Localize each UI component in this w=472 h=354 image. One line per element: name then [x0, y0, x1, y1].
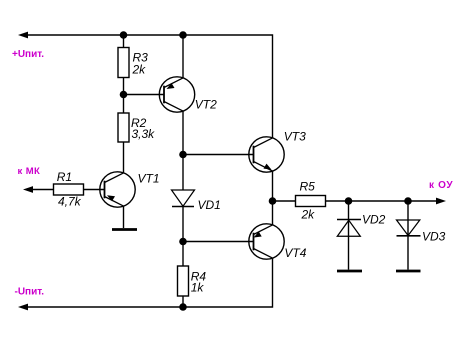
svg-text:1k: 1k — [191, 281, 205, 295]
svg-text:3,3k: 3,3k — [132, 127, 156, 141]
svg-text:к ОУ: к ОУ — [429, 180, 453, 191]
svg-text:VT4: VT4 — [284, 246, 306, 260]
svg-text:VD1: VD1 — [198, 198, 221, 212]
svg-text:-Uпит.: -Uпит. — [15, 287, 45, 298]
svg-text:VD3: VD3 — [422, 229, 446, 243]
svg-text:R1: R1 — [57, 170, 72, 184]
svg-text:VT3: VT3 — [284, 130, 306, 144]
svg-text:к МК: к МК — [18, 166, 41, 177]
svg-text:4,7k: 4,7k — [58, 195, 82, 209]
svg-text:2k: 2k — [301, 207, 316, 221]
svg-text:VT2: VT2 — [195, 98, 217, 112]
svg-text:VT1: VT1 — [138, 171, 160, 185]
svg-text:R5: R5 — [300, 180, 316, 194]
svg-text:+Uпит.: +Uпит. — [12, 49, 44, 60]
svg-text:2k: 2k — [132, 63, 147, 77]
svg-text:VD2: VD2 — [362, 212, 386, 226]
